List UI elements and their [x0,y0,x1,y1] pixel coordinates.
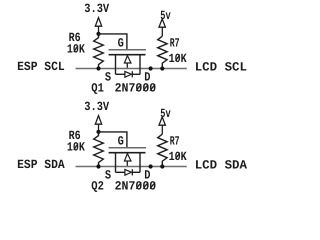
svg-text:2N7000: 2N7000 [115,82,157,96]
gate plate of Q2 [109,147,146,149]
svg-text:10K: 10K [169,52,187,66]
resistor R6 (top) [94,34,104,69]
svg-text:LCD SCL: LCD SCL [195,60,247,74]
svg-text:Q2: Q2 [91,180,104,194]
resistor R7 (top) [158,36,167,68]
slashed zero of left 10K (bottom) [74,144,78,150]
transistor Q1 2N7000 (top) [109,50,146,78]
slashed zeros of 2N7000 (top) [136,84,141,90]
svg-text:G: G [118,37,124,51]
svg-text:3.3V: 3.3V [84,2,109,16]
wire : gate feed from 3.3V node to gate of Q1 (top) [99,34,127,50]
body box of Q2 [115,153,117,173]
channel plate of Q2 [109,152,146,154]
svg-text:G: G [118,135,124,149]
substrate diode of Q2 (points up to channel) [124,154,131,161]
slashed zero of left 10K (top) [74,46,78,52]
channel plate of Q1 [109,54,146,56]
gate plate of Q1 [109,49,146,51]
power symbol 3.3V (top) [95,18,101,34]
power symbol 3.3V (bottom) [95,116,101,132]
body diode of Q1 (source to drain) [125,71,131,77]
svg-text:R7: R7 [170,135,180,149]
wire : ESP SCL horizontal net (top) [76,68,187,70]
svg-text:10K: 10K [67,141,85,155]
node : drain junction dot (bottom) [149,164,153,168]
transistor Q2 2N7000 (bottom) [109,148,146,176]
svg-text:Q1: Q1 [91,82,104,96]
substrate diode of Q1 (points up to channel) [124,56,131,63]
svg-text:S: S [105,169,112,183]
slashed zero of right 10K (top) [176,55,180,61]
body box of Q1 [115,55,117,75]
svg-text:LCD SDA: LCD SDA [195,158,248,172]
svg-text:5v: 5v [160,9,171,23]
resistor R6 (bottom) [94,132,104,167]
node : source junction dot (bottom) [96,164,100,168]
resistor R7 (bottom) [158,134,167,166]
wire : gate feed from 3.3V node to gate of Q2 (bottom) [99,132,127,148]
svg-text:2N7000: 2N7000 [115,180,157,194]
svg-text:ESP SDA: ESP SDA [17,158,65,172]
node B : junction dot at 3.3V rail (bottom) [96,130,100,134]
svg-text:ESP SCL: ESP SCL [17,60,65,74]
svg-text:S: S [105,71,112,85]
slashed zeros of 2N7000 (bottom) [136,182,141,188]
wire : ESP SDA horizontal net (bottom) [76,166,187,168]
power symbol 5v (top) [159,19,165,36]
svg-text:3.3V: 3.3V [84,100,109,114]
svg-text:R7: R7 [170,37,180,51]
svg-text:10K: 10K [67,43,85,57]
node : R7 bottom junction dot (bottom) [160,164,164,168]
body diode of Q2 (source to drain) [125,169,131,175]
svg-text:5v: 5v [160,107,171,121]
power symbol 5v (bottom) [159,117,165,134]
slashed zero of right 10K (bottom) [176,153,180,159]
node : R7 bottom junction dot (top) [160,66,164,70]
node A : junction dot at 3.3V rail (top) [96,32,100,36]
node : source junction dot (top) [96,66,100,70]
node : drain junction dot (top) [149,66,153,70]
svg-text:10K: 10K [169,150,187,164]
